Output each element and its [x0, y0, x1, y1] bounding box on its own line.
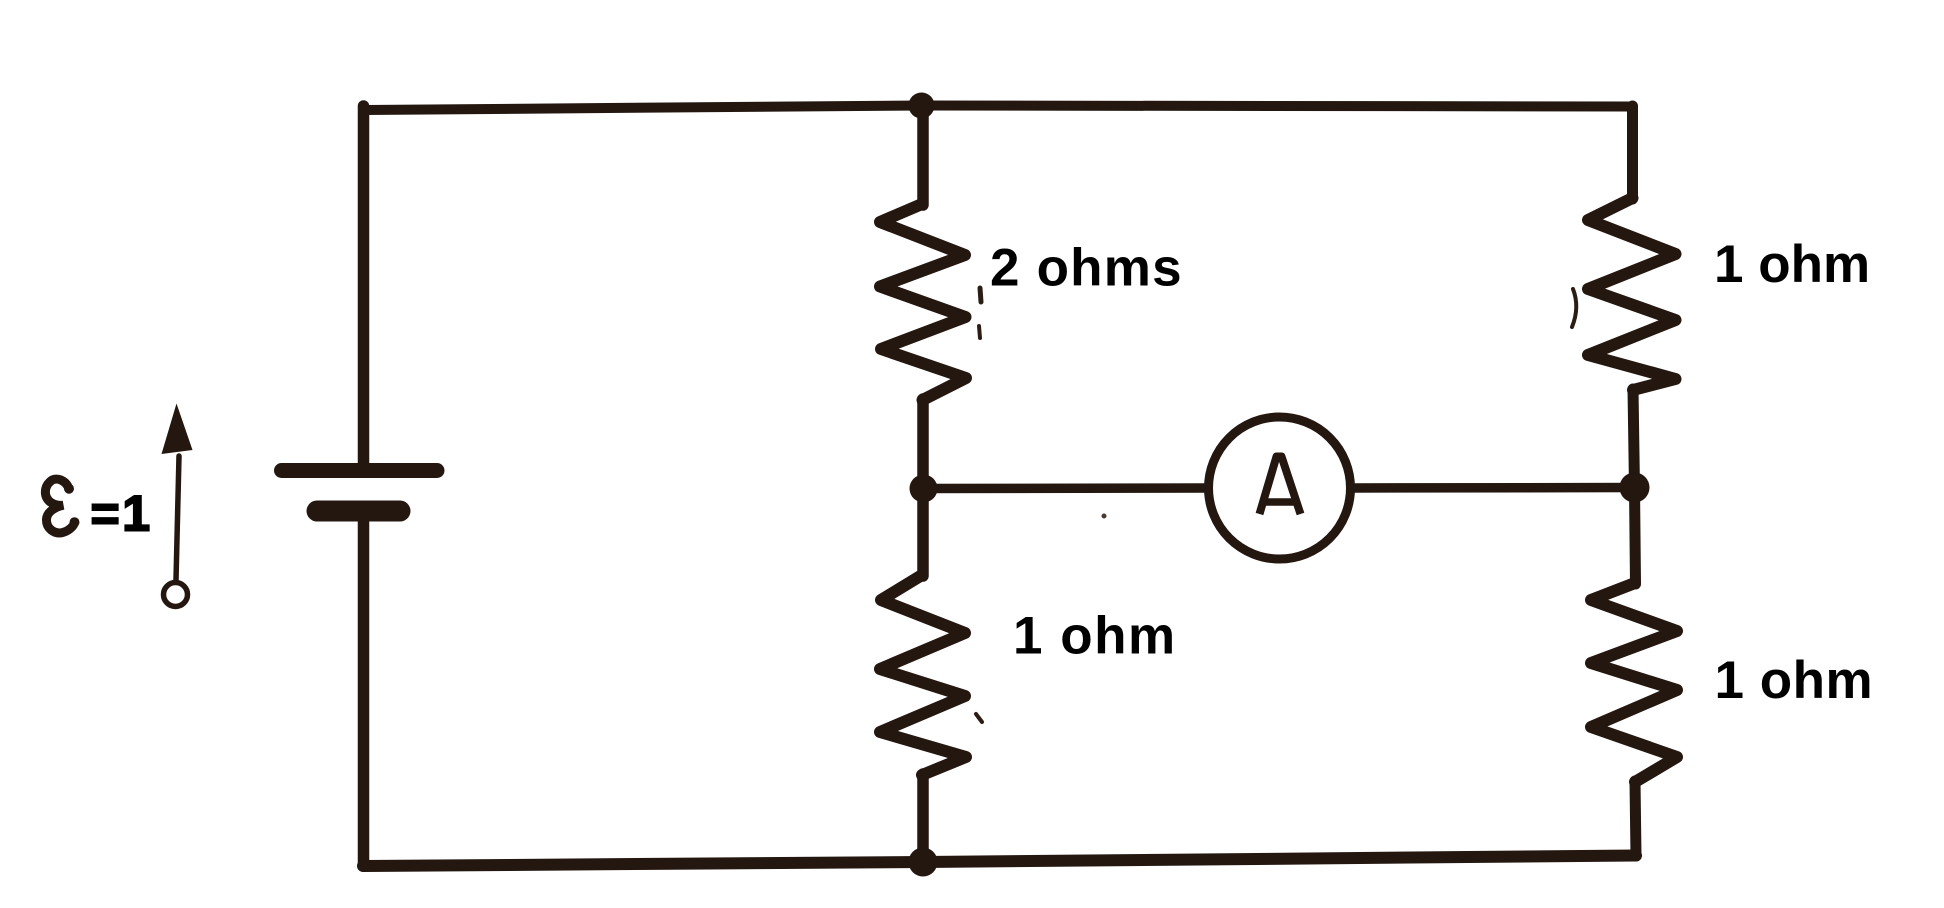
svg-text:1 ohm: 1 ohm	[1715, 651, 1874, 710]
svg-text:1 ohm: 1 ohm	[1013, 607, 1177, 666]
svg-text:2 ohms: 2 ohms	[990, 239, 1183, 298]
svg-text:1 ohm: 1 ohm	[1714, 235, 1870, 294]
svg-text:=1: =1	[91, 486, 153, 542]
